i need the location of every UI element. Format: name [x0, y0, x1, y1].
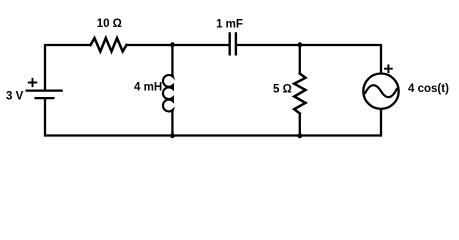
svg-text:4 mH: 4 mH — [134, 81, 162, 93]
AC source V2 circle — [363, 74, 398, 109]
battery V1 bottom plate (short) — [36, 97, 54, 99]
node B junction dot (top of 5 ohm branch) — [297, 42, 302, 47]
battery plus sign — [29, 79, 37, 86]
svg-text:3 V: 3 V — [6, 91, 24, 103]
wire battery to bottom-left corner — [45, 98, 173, 135]
svg-text:1 mF: 1 mF — [216, 18, 243, 30]
wire node A down to inductor — [171, 45, 173, 76]
wire top-left segment (corner to R1) — [45, 45, 91, 91]
resistor R2 5 ohm vertical zigzag — [294, 74, 305, 114]
battery V1 top plate (long, +) — [27, 89, 62, 91]
AC source sine wave — [365, 85, 397, 97]
wire bottom middle segment — [173, 134, 300, 136]
inductor L1 4 mH coil — [163, 75, 173, 112]
wire R1 to capacitor (through node A) — [127, 44, 229, 46]
resistor R1 10 ohm zigzag — [91, 38, 127, 52]
svg-text:5 Ω: 5 Ω — [273, 84, 292, 96]
svg-text:10 Ω: 10 Ω — [97, 18, 122, 30]
capacitor C1 1 mF plates — [230, 34, 236, 55]
wire node B down to resistor R2 — [299, 45, 301, 74]
wire bottom right segment to AC source — [300, 110, 381, 136]
node C junction dot (bottom of inductor branch) — [170, 133, 175, 138]
node A junction dot (top of inductor branch) — [170, 42, 175, 47]
wire resistor R2 down to node D — [299, 114, 301, 136]
AC source plus sign — [385, 65, 392, 72]
wire capacitor to top-right corner — [237, 45, 381, 73]
svg-text:4 cos(t): 4 cos(t) — [408, 83, 449, 95]
wire inductor down to node C — [171, 111, 173, 135]
node D junction dot (bottom of 5 ohm branch) — [297, 133, 302, 138]
